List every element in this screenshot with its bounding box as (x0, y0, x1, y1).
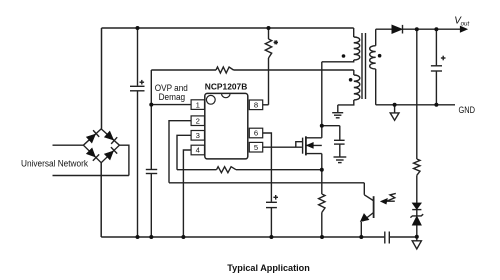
svg-text:4: 4 (196, 146, 201, 155)
svg-text:Demag: Demag (159, 92, 186, 102)
svg-text:NCP1207B: NCP1207B (205, 82, 248, 92)
svg-text:1: 1 (196, 100, 200, 109)
svg-text:3: 3 (196, 131, 200, 140)
svg-text:Universal Network: Universal Network (21, 158, 88, 168)
svg-text:5: 5 (254, 143, 258, 152)
svg-text:2: 2 (196, 116, 200, 125)
svg-text:8: 8 (254, 101, 258, 110)
svg-text:Typical Application: Typical Application (227, 263, 310, 274)
svg-text:GND: GND (459, 105, 476, 115)
svg-text:out: out (461, 21, 470, 28)
svg-text:6: 6 (254, 129, 258, 138)
